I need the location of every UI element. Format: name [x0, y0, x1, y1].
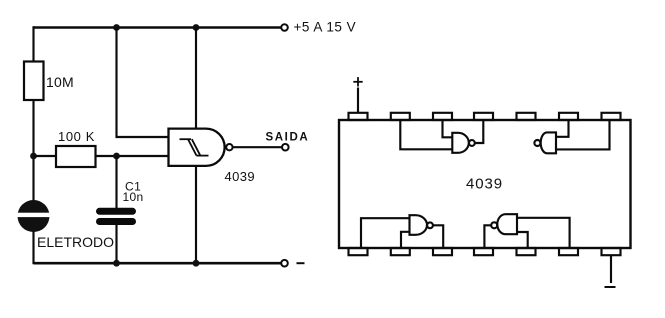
gate U1b bubble: [534, 140, 540, 146]
wire left branch upper: [32, 26, 34, 62]
wire left branch lower: [32, 231, 34, 264]
terminal SAIDA: [282, 144, 289, 151]
resistor R1 10M: [24, 62, 44, 101]
wire gate output: [233, 146, 282, 148]
pin 9 top: [559, 113, 578, 120]
wire pin 1 to U1c input A: [361, 218, 410, 248]
gate output bubble: [226, 144, 232, 150]
svg-text:10n: 10n: [123, 190, 144, 204]
pin 6 bottom: [559, 248, 578, 255]
junction R2 / C1: [113, 153, 120, 160]
svg-text:SAIDA: SAIDA: [266, 132, 310, 144]
electrode E1: [15, 200, 52, 232]
gate U1b body: [541, 132, 556, 153]
pin 2 bottom: [391, 248, 410, 255]
pin 10 top: [517, 113, 536, 120]
wire pin 2 to U1c input B: [401, 232, 410, 248]
gate U1a body: [452, 133, 469, 153]
wire C1 bottom lead: [115, 225, 117, 264]
pin 13 top: [391, 113, 410, 120]
pin 4 bottom: [474, 248, 493, 255]
pin 7 bottom: [602, 248, 621, 255]
junction top rail / gate power branch: [193, 24, 200, 31]
gate U1d body: [497, 214, 517, 234]
power - symbol: [605, 286, 616, 288]
wire U1d output to pin 4: [484, 225, 491, 248]
resistor R2 100K: [56, 146, 96, 167]
power + symbol: [353, 77, 362, 86]
pin 5 bottom: [517, 248, 536, 255]
junction bottom rail / C1: [113, 260, 120, 267]
pin 8 top: [602, 113, 621, 120]
junction top rail / gate input branch: [113, 24, 120, 31]
pin 3 bottom: [433, 248, 452, 255]
wire pin 9 to U1b input A: [556, 120, 569, 137]
wire pin 13 to U1a input B: [400, 120, 452, 149]
gate U1 NAND schmitt: [169, 129, 225, 166]
wire R2 right lead to gate input B: [96, 155, 170, 157]
wire left branch middle: [32, 100, 34, 201]
capacitor C1 plate top: [100, 208, 133, 215]
wire + to pin 14: [357, 88, 359, 113]
wire gate power bottom: [195, 166, 197, 265]
svg-text:+5 A 15 V: +5 A 15 V: [294, 19, 357, 34]
wire C1 top lead: [115, 156, 117, 209]
svg-text:4039: 4039: [466, 176, 503, 193]
wire R2 left lead: [34, 155, 57, 157]
svg-text:10M: 10M: [46, 74, 74, 90]
wire pin 7 to minus: [610, 255, 612, 283]
gate U1c bubble: [427, 222, 433, 228]
pin 12 top: [433, 113, 452, 120]
capacitor C1 plate bottom: [100, 218, 133, 225]
schmitt hysteresis symbol: [180, 139, 209, 155]
wire gate power top: [195, 28, 197, 130]
pin 14 top: [349, 113, 368, 120]
IC 4039 package body: [339, 120, 631, 248]
wire bottom rail: [34, 262, 282, 265]
gate U1d bubble: [491, 222, 497, 228]
wire pin 8 to U1b input B: [556, 120, 610, 149]
label minus sign: [297, 262, 305, 264]
svg-text:4039: 4039: [225, 169, 256, 184]
wire U1c output to pin 3: [433, 225, 443, 248]
wire pin 5 to U1d input B: [517, 232, 528, 248]
gate U1a bubble: [469, 140, 475, 146]
wire U1a output to pin 11: [475, 120, 484, 143]
gate U1c body: [410, 215, 428, 235]
wire pin 12 to U1a input A: [443, 120, 453, 137]
pin 1 bottom: [349, 248, 368, 255]
svg-text:ELETRODO: ELETRODO: [37, 234, 114, 250]
junction bottom rail / gate power: [193, 260, 200, 267]
wire pin 6 to U1d input A: [517, 218, 570, 248]
svg-text:100 K: 100 K: [58, 129, 95, 144]
wire gate input A from top rail: [117, 28, 170, 138]
wire top +V rail: [34, 26, 282, 29]
terminal +V: [281, 24, 288, 31]
terminal minus: [281, 260, 288, 267]
junction left branch / R2: [30, 153, 37, 160]
pin 11 top: [474, 113, 493, 120]
